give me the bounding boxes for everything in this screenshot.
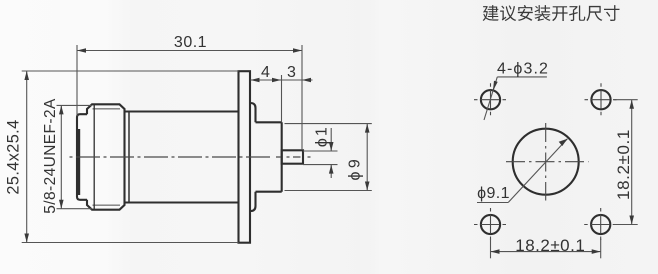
svg-text:3: 3 <box>287 64 296 81</box>
svg-text:18.2±0.1: 18.2±0.1 <box>614 129 633 200</box>
svg-text:30.1: 30.1 <box>174 34 207 51</box>
svg-text:18.2±0.1: 18.2±0.1 <box>515 236 585 255</box>
svg-text:25.4x25.4: 25.4x25.4 <box>5 119 23 194</box>
svg-text:ϕ9.1: ϕ9.1 <box>477 185 510 202</box>
svg-text:ϕ9: ϕ9 <box>347 156 364 181</box>
svg-text:4-ϕ3.2: 4-ϕ3.2 <box>497 61 549 78</box>
svg-text:ϕ1: ϕ1 <box>314 125 331 147</box>
svg-text:4: 4 <box>261 64 270 81</box>
svg-text:5/8-24UNEF-2A: 5/8-24UNEF-2A <box>42 98 59 214</box>
